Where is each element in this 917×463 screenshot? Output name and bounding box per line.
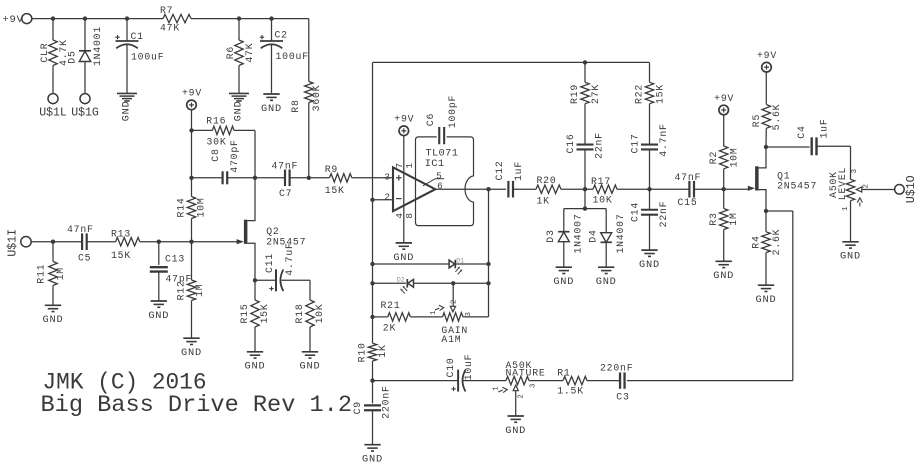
svg-text:2K: 2K (383, 322, 396, 333)
svg-text:47nF: 47nF (67, 224, 94, 235)
wire R18 to ground (309, 327, 311, 351)
diode D5 1N4001 (67, 26, 104, 66)
svg-text:A1M: A1M (441, 334, 461, 345)
capacitor C12 1uF (494, 160, 524, 197)
resistor R8 (290, 82, 322, 113)
wire source node to feedback line (627, 211, 793, 381)
junction output node (486, 187, 490, 191)
svg-text:C15: C15 (678, 197, 698, 208)
wire node to C15 (650, 188, 690, 190)
svg-text:100uF: 100uF (276, 51, 309, 62)
wire C2 to ground (271, 44, 273, 93)
svg-text:1M: 1M (728, 212, 739, 225)
wire C11 to R18 (282, 280, 311, 300)
resistor R14 (176, 197, 207, 219)
wire gate node to R12 (191, 242, 193, 280)
diode D1 LED (449, 257, 464, 274)
svg-text:R2: R2 (708, 151, 719, 164)
ground NATURE (505, 416, 526, 437)
junction D2 right (486, 281, 490, 285)
wire R16 node down to C8 node (191, 130, 193, 177)
wire D3 to ground (563, 242, 565, 267)
wire R19 to C16 (584, 104, 586, 145)
svg-text:1uF: 1uF (819, 118, 830, 138)
wire R10 to node (372, 361, 374, 381)
wire gate node to Q1 (724, 188, 749, 190)
resistor R2 (708, 146, 740, 169)
svg-text:1M: 1M (55, 267, 66, 280)
svg-text:R9: R9 (325, 164, 338, 175)
wire source node to C11 (255, 279, 276, 281)
ground R12 (181, 338, 202, 359)
wire C13 to ground (158, 272, 160, 301)
wire feedback pin2 up and across (373, 62, 650, 199)
resistor CLR (39, 39, 69, 66)
wire C3 to R1 (587, 380, 620, 382)
wire D1 row left (373, 263, 450, 265)
svg-text:1N4001: 1N4001 (92, 26, 103, 66)
svg-text:GND: GND (596, 276, 617, 288)
wire R14 to gate node (191, 219, 193, 242)
wire C8 left (192, 177, 223, 179)
wire C16 to node (584, 150, 586, 190)
junction Q2 gate node (189, 240, 193, 244)
svg-text:+9V: +9V (394, 114, 414, 125)
wire source node to R4 (765, 211, 767, 232)
wire rail to D5 (84, 19, 86, 51)
junction R10 bottom node (370, 378, 374, 382)
svg-text:1K: 1K (537, 196, 550, 207)
wire Q2 drain lead (247, 178, 255, 221)
wire R8 to C7/R9 node (308, 103, 310, 178)
svg-text:GND: GND (393, 252, 414, 264)
junction C8 left node (189, 176, 193, 180)
svg-text:C8: C8 (210, 148, 221, 161)
svg-text:R14: R14 (176, 197, 187, 217)
svg-text:R13: R13 (111, 228, 131, 239)
wire LEVEL to ground (850, 201, 852, 242)
wire supply to R16 node (191, 110, 193, 130)
svg-text:C13: C13 (165, 253, 185, 264)
svg-text:10K: 10K (314, 303, 325, 323)
op-amp U1 triangle (393, 167, 435, 211)
svg-text:GND: GND (43, 314, 64, 326)
wire NATURE wiper to ground (515, 391, 517, 416)
svg-text:C10: C10 (445, 357, 456, 377)
wire +9V rail from supply terminal to R7 (32, 18, 163, 20)
svg-text:2N5457: 2N5457 (777, 180, 817, 191)
resistor R18 (294, 300, 325, 327)
svg-text:+9V: +9V (182, 88, 202, 99)
supply +9V R2 (714, 93, 734, 115)
wire R16 to drain line (234, 130, 255, 177)
capacitor C17 4.7nF (630, 123, 670, 156)
svg-text:30K: 30K (207, 136, 227, 147)
svg-text:GND: GND (553, 276, 574, 288)
terminal U$1O output (895, 175, 917, 203)
junction R22 bottom node (647, 187, 651, 191)
wire NATURE to C10 (463, 380, 506, 382)
junction R16 node (189, 128, 193, 132)
resistor R10 (357, 342, 389, 362)
svg-text:D5: D5 (67, 50, 78, 63)
ground R6 (229, 93, 249, 121)
resistor R7 (160, 5, 191, 33)
junction Q2 drain node (253, 176, 257, 180)
capacitor C3 220nF (600, 362, 633, 402)
svg-text:C14: C14 (630, 202, 641, 222)
potentiometer LEVEL A50K (828, 167, 870, 211)
resistor R17 (591, 176, 617, 206)
svg-text:R8: R8 (290, 99, 301, 112)
svg-text:10M: 10M (729, 147, 740, 167)
svg-text:D1: D1 (456, 257, 464, 264)
wire C1 to ground (126, 44, 128, 93)
svg-text:R15: R15 (239, 303, 250, 323)
svg-text:C5: C5 (78, 253, 91, 264)
svg-text:2: 2 (451, 299, 459, 304)
wire R7 to R8 corner (191, 19, 309, 82)
svg-text:3: 3 (465, 312, 473, 317)
wire pin2 node down (372, 200, 374, 343)
wire R12 to ground (191, 301, 193, 338)
transistor Q1 2N5457 (748, 166, 817, 191)
svg-text:10uF: 10uF (463, 354, 474, 381)
svg-text:100pF: 100pF (447, 95, 458, 128)
svg-text:R20: R20 (537, 175, 557, 186)
svg-text:2.6K: 2.6K (771, 229, 782, 256)
svg-text:47nF: 47nF (675, 172, 702, 183)
svg-text:1N4007: 1N4007 (573, 213, 584, 253)
svg-text:GND: GND (233, 100, 245, 121)
svg-text:U$1G: U$1G (71, 107, 99, 120)
capacitor C16 22nF (565, 132, 605, 159)
svg-text:3: 3 (530, 383, 538, 388)
svg-text:15K: 15K (655, 84, 666, 104)
svg-text:3: 3 (384, 171, 390, 182)
op-amp pin 5 stub (423, 179, 444, 186)
junction CLR/rail (51, 16, 55, 20)
svg-text:IC1: IC1 (425, 158, 445, 170)
svg-text:C7: C7 (279, 188, 292, 199)
svg-text:NATURE: NATURE (506, 368, 546, 379)
resistor R19 (569, 82, 601, 104)
wire supply to R2 (723, 115, 725, 146)
terminal U$1L (39, 94, 67, 120)
svg-text:GND: GND (300, 361, 321, 373)
wire R11 to ground (52, 286, 54, 305)
op-amp pin number labels (384, 162, 443, 218)
resistor R13 (111, 228, 140, 260)
ground C9 (362, 445, 383, 463)
svg-text:47K: 47K (160, 23, 180, 34)
junction R19 top (583, 60, 587, 64)
wire output node down to GAIN pin3 (463, 189, 489, 317)
svg-text:D3: D3 (545, 229, 556, 242)
wire R20 to R19 node (561, 188, 593, 190)
wire C7 to R8 node (290, 177, 330, 179)
wire C14 to ground (649, 215, 651, 250)
wire R22 to C17 (649, 104, 651, 145)
wire C15 to Q1 gate node (694, 188, 724, 190)
ground R3 (713, 261, 734, 282)
junction Q1 drain node (764, 145, 768, 149)
junction C13/signal (157, 240, 161, 244)
capacitor C9 220nF (352, 385, 392, 418)
svg-text:R1: R1 (557, 367, 570, 378)
svg-text:R22: R22 (634, 84, 645, 104)
wire C8 node to R14 (191, 178, 193, 197)
wire Q1 source lead (759, 190, 766, 211)
wire op-amp output (435, 188, 506, 190)
svg-text:100uF: 100uF (131, 51, 164, 62)
svg-text:U$1I: U$1I (7, 229, 20, 257)
ground R4 (756, 285, 777, 306)
svg-text:1uF: 1uF (513, 161, 524, 181)
wire R2 to gate node (723, 169, 725, 189)
svg-text:1: 1 (404, 162, 415, 168)
transistor Q2 2N5457 (237, 220, 307, 248)
svg-text:GND: GND (840, 251, 861, 263)
supply +9V R5 (757, 50, 777, 72)
svg-text:22nF: 22nF (658, 201, 669, 228)
svg-text:R6: R6 (225, 46, 236, 59)
svg-text:C4: C4 (796, 125, 807, 138)
svg-text:4.7uF: 4.7uF (284, 242, 295, 275)
wire to D3 (563, 209, 565, 232)
wire op-amp pin 2 (373, 199, 394, 201)
wire top loop to R19 (584, 62, 586, 82)
svg-text:U$1O: U$1O (905, 175, 917, 203)
svg-text:8: 8 (404, 212, 415, 218)
svg-text:47K: 47K (244, 43, 255, 63)
svg-text:2: 2 (862, 183, 870, 188)
ground R11 (43, 305, 64, 326)
svg-text:R16: R16 (206, 116, 226, 127)
svg-text:C11: C11 (264, 253, 275, 273)
svg-text:R11: R11 (36, 264, 47, 284)
wire C17 to node (649, 150, 651, 190)
resistor R6 (225, 40, 255, 66)
svg-text:470pF: 470pF (229, 139, 240, 172)
wire drain node to C4 (766, 146, 810, 148)
svg-text:C17: C17 (630, 133, 641, 153)
junction D1 right (486, 262, 490, 266)
wire rail to R6 (238, 19, 240, 40)
wire C5 to R13 (87, 241, 116, 243)
wire node to C9 (372, 381, 374, 404)
svg-text:4.7nF: 4.7nF (658, 123, 669, 156)
wire R4 to ground (765, 253, 767, 285)
svg-text:D2: D2 (397, 276, 405, 283)
wire D2 row right (414, 282, 489, 284)
resistor R21 (381, 300, 411, 333)
resistor R12 (176, 280, 206, 301)
svg-text:GND: GND (148, 310, 169, 322)
wire C4 to LEVEL pot (817, 146, 851, 179)
ground C13 (148, 301, 169, 322)
svg-text:1: 1 (430, 310, 438, 315)
ground D3 (553, 267, 574, 288)
supply +9V Q2 bias (182, 88, 202, 110)
wire R13 to Q2 gate node (140, 241, 192, 243)
junction Q1 source node (764, 209, 768, 213)
diode D2 LED (397, 276, 414, 293)
ground C14 (639, 250, 660, 271)
capacitor C6 100pF (425, 95, 458, 144)
svg-text:GND: GND (181, 347, 202, 359)
diode D4 1N4007 (588, 213, 627, 253)
wire node to C13 (158, 242, 160, 265)
ground R15 (245, 352, 266, 373)
svg-text:U$1L: U$1L (39, 107, 67, 120)
svg-text:220nF: 220nF (381, 385, 392, 418)
svg-text:C3: C3 (616, 392, 629, 403)
resistor R9 (325, 164, 352, 196)
svg-text:2: 2 (384, 192, 390, 203)
svg-text:R19: R19 (569, 84, 580, 104)
ground D4 (596, 267, 617, 288)
terminal U$1B +9V supply input (3, 14, 32, 27)
svg-text:R5: R5 (751, 114, 762, 127)
svg-text:C2: C2 (275, 30, 288, 41)
wire R3 to ground (723, 230, 725, 261)
junction GAIN wiper top (451, 281, 455, 285)
wire C8 right to drain junction (227, 177, 255, 179)
svg-text:D4: D4 (588, 229, 599, 242)
svg-text:GND: GND (245, 361, 266, 373)
resistor R16 (206, 116, 234, 148)
wire op-amp V+ pin 7 to V- pin 4 (403, 136, 405, 243)
wire GAIN wiper (452, 283, 454, 306)
wire R5 to drain node (765, 128, 767, 147)
resistor R20 (536, 175, 561, 207)
svg-text:GND: GND (713, 270, 734, 282)
svg-text:GND: GND (756, 294, 777, 306)
wire pin2 line to R21 (373, 316, 388, 318)
text title (41, 392, 353, 418)
svg-text:C6: C6 (425, 113, 436, 126)
terminal U$1G (71, 94, 99, 120)
svg-text:360K: 360K (311, 85, 322, 112)
wire node to R16 (192, 129, 213, 131)
wire to D4 (605, 209, 607, 233)
wire D2 row left (373, 282, 406, 284)
junction R8 bottom node (307, 176, 311, 180)
wire R9 to op-amp pin 3 (352, 177, 393, 179)
capacitor C8 470pF (210, 139, 240, 184)
svg-text:LEVEL: LEVEL (837, 167, 848, 200)
svg-text:15K: 15K (259, 303, 270, 323)
capacitor C5 47nF (67, 224, 94, 264)
wire node to diode branch (564, 189, 606, 208)
op-amp U1 body rectangle IC1 (416, 137, 474, 226)
wire D5 to U$1G (84, 62, 86, 94)
svg-text:+9V: +9V (714, 93, 734, 104)
svg-text:47nF: 47nF (272, 160, 299, 171)
ground C2 (261, 94, 282, 115)
svg-text:15K: 15K (111, 250, 131, 261)
capacitor C2 100uF (260, 30, 309, 63)
svg-text:6: 6 (437, 181, 443, 192)
wire Q2 gate (192, 241, 238, 243)
junction C2/rail (269, 16, 273, 20)
junction D1 left (370, 262, 374, 266)
op-amp IC1 labels (425, 148, 459, 171)
wire R17 to R22 node (617, 188, 650, 190)
junction Q1 gate node (722, 187, 726, 191)
svg-text:R17: R17 (591, 176, 611, 187)
junction C1/rail (125, 16, 129, 20)
capacitor C11 4.7uF (264, 242, 295, 291)
wire supply to R5 (765, 72, 767, 104)
capacitor C13 47pF (150, 253, 192, 284)
wire drain node to C7 (255, 177, 285, 179)
wire rail to CLR (52, 19, 54, 40)
capacitor C7 47nF (272, 160, 299, 199)
ground R18 (300, 352, 321, 373)
svg-text:R7: R7 (160, 5, 173, 16)
svg-text:5.6K: 5.6K (771, 104, 782, 131)
supply +9V op-amp (394, 114, 414, 136)
junction R21 node (370, 315, 374, 319)
wire R1 to NATURE pot (529, 380, 563, 382)
diode D3 1N4007 (545, 213, 584, 253)
wire U$1I to C5 (31, 241, 82, 243)
svg-text:27K: 27K (590, 84, 601, 104)
svg-text:C9: C9 (352, 401, 363, 414)
junction Q2 source node (253, 278, 257, 282)
svg-text:+9V: +9V (757, 50, 777, 61)
svg-text:C16: C16 (565, 133, 576, 153)
svg-text:R10: R10 (357, 342, 368, 362)
wire Q2 source lead (247, 243, 255, 280)
svg-text:R18: R18 (294, 303, 305, 323)
wire D4 to ground (605, 242, 607, 266)
ground LEVEL (840, 242, 861, 263)
junction diode branch (583, 206, 587, 210)
wire input to R11 (52, 242, 54, 262)
svg-text:GND: GND (362, 454, 383, 463)
svg-text:GND: GND (261, 103, 282, 115)
text copyright (43, 370, 207, 396)
junction R19 bottom node (583, 187, 587, 191)
svg-text:GND: GND (505, 425, 526, 437)
wire C9 to ground (372, 410, 374, 444)
wire C10 to R10 node (373, 380, 459, 382)
svg-text:1N4007: 1N4007 (615, 213, 626, 253)
resistor R3 (708, 209, 739, 230)
resistor R22 (634, 82, 666, 104)
junction D5/rail (83, 16, 87, 20)
potentiometer GAIN A1M (430, 299, 473, 345)
svg-text:C12: C12 (494, 160, 505, 180)
svg-text:22nF: 22nF (594, 132, 605, 159)
wire source node to R15 (254, 280, 256, 300)
junction R11/input (51, 240, 55, 244)
svg-text:GND: GND (121, 100, 133, 121)
junction pin 2 node (370, 198, 374, 202)
svg-text:1: 1 (842, 206, 850, 211)
wire R15 to ground (254, 327, 256, 351)
svg-text:15K: 15K (325, 185, 345, 196)
wire Q1 drain lead (759, 147, 766, 168)
wire R21 to GAIN (410, 316, 442, 318)
svg-text:1M: 1M (194, 284, 205, 297)
svg-text:3: 3 (851, 168, 859, 173)
junction D2 left (370, 281, 374, 285)
capacitor C15 47nF (675, 172, 702, 208)
